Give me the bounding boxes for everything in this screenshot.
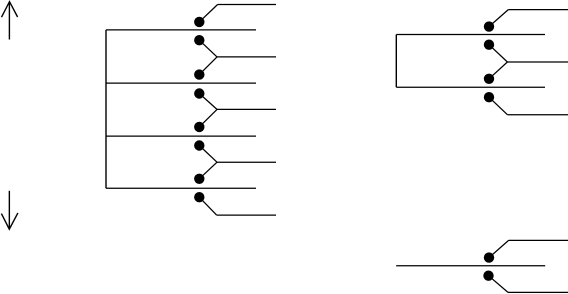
node A5: [194, 122, 204, 132]
node C2: [483, 271, 493, 281]
wire L4 (left bus line 4): [106, 187, 256, 189]
arrow up (direction indicator, top left): [2, 2, 18, 40]
node A3: [194, 69, 204, 79]
node B2: [484, 40, 494, 50]
left bus vertical: [105, 30, 107, 188]
branch from node C1 up to apex P0: [489, 240, 509, 257]
branch from node B2 down to apex N1: [489, 45, 507, 62]
wire N0 (right top merge line): [508, 9, 568, 11]
node C1: [484, 252, 494, 262]
node A6: [194, 140, 204, 150]
node A7: [194, 174, 204, 184]
wire P1 (bottom-right lower merge line): [508, 291, 568, 293]
wire M1 (merge line 1): [217, 56, 276, 58]
wire L1 (left bus line 1): [106, 29, 256, 31]
branch from node A5 up to apex M2: [199, 109, 217, 127]
branch from node A8 down to bottom apex: [199, 197, 216, 215]
wire M2 (merge line 2): [217, 108, 276, 110]
branch from node B4 down to bottom apex: [489, 97, 507, 115]
branch from node C2 down to apex P1: [489, 276, 509, 293]
branch from node B1 to top apex: [489, 10, 508, 27]
wire L3 (left bus line 3): [106, 135, 256, 137]
branch from node A4 down to apex M2: [199, 94, 217, 110]
node A1: [194, 17, 204, 27]
wire L2 (left bus line 2): [106, 82, 256, 84]
branch from node A7 up to apex M3: [199, 162, 217, 179]
wire N2 (right bottom merge line): [507, 114, 568, 116]
node B4: [484, 92, 494, 102]
node B1: [484, 21, 494, 31]
branch from node A1 to top apex: [199, 5, 217, 22]
wire M0 (top merge line): [218, 4, 276, 6]
wire S (bottom right bus line): [396, 265, 545, 267]
wire R2 (right bus line 2): [396, 86, 545, 88]
wire M4 (bottom merge line): [217, 214, 276, 216]
wire R1 (right bus line 1): [396, 34, 545, 36]
node A2: [194, 35, 204, 45]
right bus vertical: [395, 35, 397, 88]
wire P0 (bottom-right upper merge line): [509, 239, 568, 241]
branch from node B3 up to apex N1: [489, 62, 507, 79]
node A4: [194, 88, 204, 98]
wire M3 (merge line 3): [217, 161, 276, 163]
branch from node A2 down to apex M1: [199, 40, 217, 57]
branch from node A6 down to apex M3: [199, 146, 217, 163]
node B3: [484, 74, 494, 84]
wire N1 (right merge line): [507, 61, 568, 63]
branch from node A3 up to apex M1: [199, 57, 217, 75]
node A8: [194, 192, 204, 202]
arrow down (direction indicator, left margin): [1, 191, 18, 229]
